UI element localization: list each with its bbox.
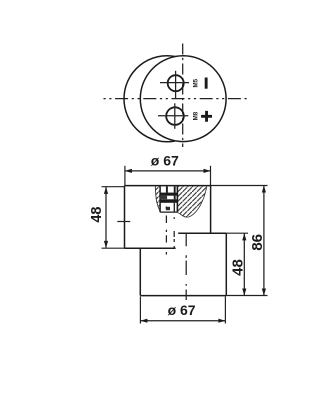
lower cylinder axis: [185, 234, 187, 300]
centerline tick on left edge: [117, 221, 130, 223]
extension top right: [211, 185, 268, 187]
extension line left: [124, 166, 126, 186]
dim line ø67 bottom: [140, 320, 225, 322]
dimension line ø67 top: [125, 170, 211, 172]
minus polarity bar: [205, 78, 208, 89]
hole2 crosshair: [158, 115, 188, 117]
nut band 1: [160, 193, 177, 196]
upper cylinder top edge: [125, 185, 211, 187]
svg-text:ø 67: ø 67: [151, 153, 179, 169]
smudge in well: [166, 207, 170, 210]
terminal hole (plus): [166, 107, 184, 125]
screw shank: [166, 186, 168, 192]
terminal well right wall: [176, 186, 178, 212]
cutaway hatch left strip: [155, 186, 160, 211]
lower cylinder right edge: [225, 233, 227, 295]
bore centerline (dash-dot, right): [173, 217, 175, 248]
ledge extension (to 48 dim): [226, 232, 248, 234]
svg-text:M5: M5: [193, 78, 200, 87]
upper cylinder axis (dash-dot, left): [165, 207, 167, 256]
svg-text:48: 48: [230, 259, 247, 276]
extension top: [102, 186, 125, 188]
svg-text:86: 86: [249, 234, 266, 251]
extension right: [224, 297, 226, 324]
lower cylinder left edge: [139, 248, 141, 295]
vertical centerline: [182, 44, 184, 148]
horizontal centerline: [104, 98, 250, 100]
hole1 crosshair: [160, 82, 189, 84]
extension left: [139, 297, 141, 324]
dim line 48 right: [243, 233, 245, 295]
cutaway hatch right blob: [177, 186, 206, 217]
terminal hole (minus): [168, 75, 184, 91]
nut band 2: [160, 199, 177, 203]
svg-text:ø 67: ø 67: [168, 302, 196, 318]
terminal well left wall: [159, 186, 161, 212]
extension line right: [210, 166, 212, 186]
dim line 86: [263, 186, 265, 296]
extension bottom: [102, 247, 125, 249]
terminal well bottom: [160, 211, 177, 213]
break line right: [177, 186, 206, 217]
svg-text:M8: M8: [193, 111, 200, 120]
break line left: [155, 186, 160, 211]
main circle (upper cylinder, top view): [140, 56, 226, 142]
lower cylinder top ledge: [178, 232, 226, 234]
dim line 48 left: [105, 187, 107, 248]
extension bottom right: [226, 295, 267, 297]
plus polarity sign: [201, 111, 212, 122]
upper cylinder left edge: [124, 186, 126, 249]
upper cylinder right edge: [210, 186, 212, 234]
lower cylinder bottom edge: [140, 295, 226, 297]
upper cylinder bottom ledge: [125, 247, 176, 249]
svg-text:48: 48: [89, 207, 105, 223]
crescent arc (offset lower cylinder): [124, 56, 175, 142]
